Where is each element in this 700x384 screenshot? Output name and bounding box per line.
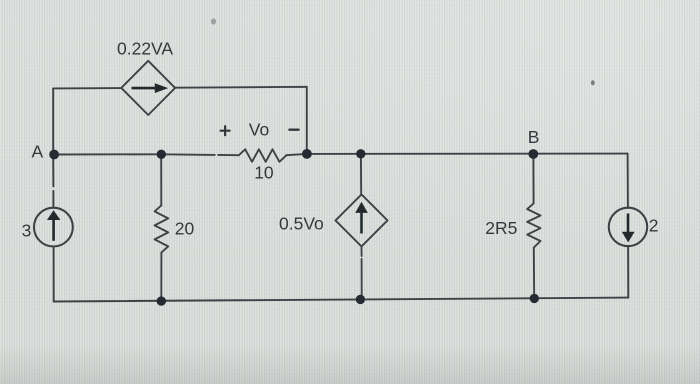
svg-text:0.5Vo: 0.5Vo xyxy=(279,214,324,234)
arrow inside source 3 (points up) xyxy=(52,220,55,241)
svg-text:10: 10 xyxy=(254,162,274,182)
svg-text:A: A xyxy=(32,141,44,161)
arrow inside 0.5Vo source (points up) xyxy=(360,213,363,234)
wire: main rail node A to resistor 10 (with scan gap) xyxy=(53,153,215,156)
node A junction dot xyxy=(49,150,59,160)
wire: resistor 2R5 bottom lead xyxy=(533,248,535,299)
resistor 2R5 (vertical zigzag) xyxy=(527,203,540,247)
wire: resistor 20 bottom lead xyxy=(160,252,162,301)
wire: resistor 2R5 top lead xyxy=(532,154,534,203)
junction dot top-right of loop xyxy=(302,149,312,159)
svg-text:2R5: 2R5 xyxy=(485,218,517,238)
wire: left vertical of top loop (node A up) xyxy=(52,88,54,154)
svg-text:Vo: Vo xyxy=(249,120,269,140)
dependent current source 0.5Vo (diamond outline) xyxy=(336,194,388,246)
wire: current source 3 bottom lead xyxy=(53,247,55,302)
arrow inside source 2 (points down) xyxy=(627,214,630,233)
svg-text:0.22VA: 0.22VA xyxy=(117,39,173,59)
junction dot at resistor 20 bottom xyxy=(157,296,166,305)
resistor 10 (horizontal zigzag) xyxy=(239,149,287,162)
junction dot at resistor 20 top xyxy=(157,150,166,159)
wire: bottom rail xyxy=(54,298,629,302)
wire: resistor 20 top lead xyxy=(160,154,162,205)
wire: dependent source 0.5Vo top lead xyxy=(360,154,362,195)
wire: main rail resistor 10 to right corner xyxy=(286,154,627,156)
wire: top rail right segment and down to node xyxy=(175,87,307,154)
wire: current source 3 top lead (with scan gap) xyxy=(52,155,54,187)
wire: current source 2 bottom lead xyxy=(627,246,629,298)
wire: dependent source 0.5Vo bottom lead (with scan gap) xyxy=(361,246,363,256)
svg-text:B: B xyxy=(528,127,540,147)
dust speck near top right xyxy=(591,80,595,85)
dust speck near top center xyxy=(211,18,216,24)
dependent current source 0.22VA (diamond outline) xyxy=(121,61,175,115)
independent current source 2 (circle) xyxy=(609,208,647,246)
arrow inside 0.22VA source (points right) xyxy=(132,87,157,90)
label minus (polarity of Vo, drawn) xyxy=(289,128,298,130)
wire: top rail left segment to diamond xyxy=(53,87,121,89)
node B junction dot xyxy=(528,149,538,159)
svg-text:2: 2 xyxy=(649,216,659,236)
resistor 20 (vertical zigzag) xyxy=(155,205,169,252)
junction dot at 0.5Vo top xyxy=(356,149,365,158)
junction dot at 0.5Vo bottom xyxy=(356,295,365,304)
junction dot at resistor 2R5 bottom xyxy=(530,294,539,303)
svg-text:20: 20 xyxy=(175,218,195,238)
independent current source 3 (circle) xyxy=(34,208,73,247)
wire: current source 2 top lead xyxy=(627,154,629,208)
label + (polarity of Vo, drawn) xyxy=(221,130,230,132)
svg-text:3: 3 xyxy=(22,221,32,241)
